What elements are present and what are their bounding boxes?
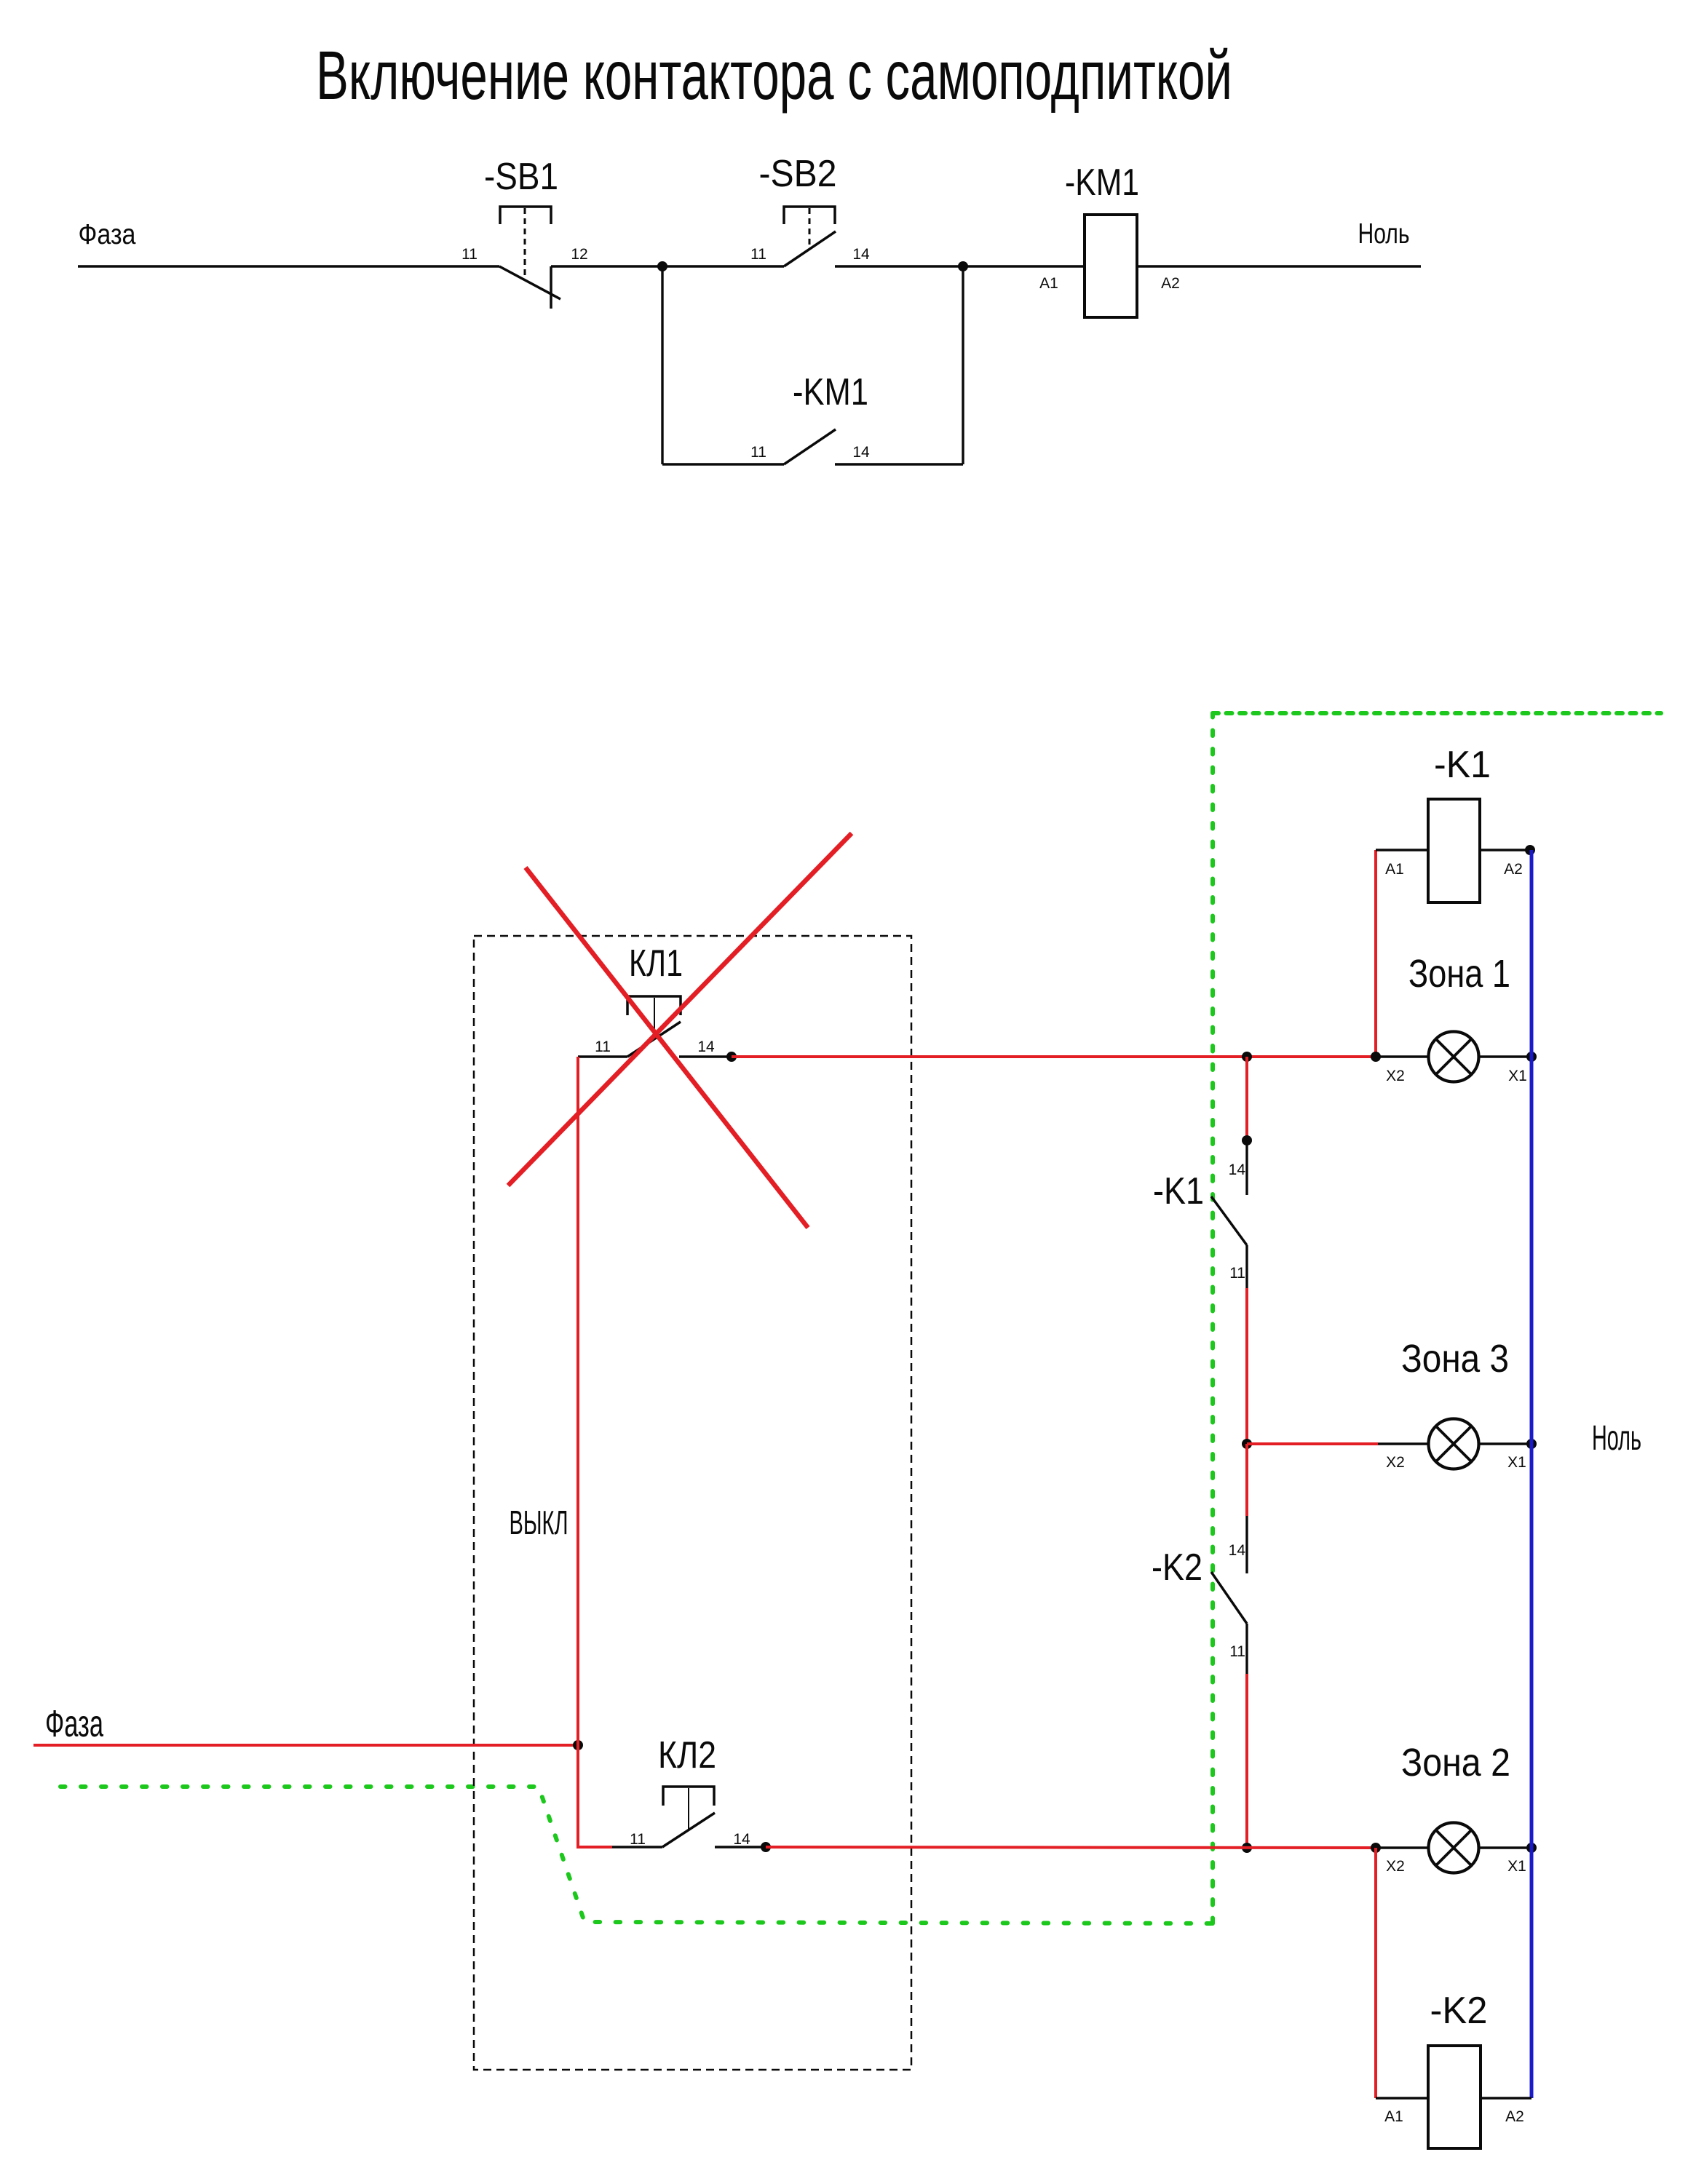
svg-text:11: 11 bbox=[461, 246, 478, 263]
contact K2 (NO, vertical) bbox=[1211, 1572, 1247, 1624]
svg-text:A1: A1 bbox=[1039, 275, 1058, 292]
svg-text:-KM1: -KM1 bbox=[1065, 162, 1139, 204]
wire node B to KM1 coil A1 bbox=[963, 265, 1085, 267]
svg-text:11: 11 bbox=[750, 246, 766, 263]
wire (red) node D down to K1 contact bbox=[1245, 1057, 1248, 1140]
node I (Фаза / ВЫКЛ riser) bbox=[573, 1740, 583, 1750]
wire KM1 aux pin 14 to riser bbox=[835, 463, 963, 465]
wire Фаза to SB1 pin 11 bbox=[78, 265, 499, 267]
wire SB2 pin 14 to node B bbox=[835, 265, 963, 267]
svg-text:Фаза: Фаза bbox=[79, 219, 136, 250]
node B (junction SB2/KM1-aux/KM1-coil) bbox=[958, 261, 968, 271]
contact K1 (NO, vertical) bbox=[1211, 1196, 1247, 1245]
svg-text:-K2: -K2 bbox=[1152, 1546, 1202, 1589]
pushbutton КЛ2 (NO) bbox=[662, 1787, 715, 1847]
wire (red) Фаза feeder bbox=[33, 1744, 578, 1747]
wire K2 contact pin 11 bbox=[1245, 1624, 1248, 1674]
lamp HL1 (Зона 1) bbox=[1429, 1032, 1479, 1082]
svg-text:Ноль: Ноль bbox=[1592, 1419, 1641, 1458]
green highlight path (right riser) bbox=[1210, 713, 1215, 1923]
svg-text:X1: X1 bbox=[1507, 1858, 1526, 1875]
node A (junction SB1/SB2/KM1-aux) bbox=[657, 261, 667, 271]
wire K2 coil A1 lead bbox=[1376, 2097, 1428, 2099]
node N (K1 coil / neutral bus top) bbox=[1525, 845, 1535, 855]
wire zone 2 lamp left lead bbox=[1376, 1846, 1428, 1849]
svg-text:12: 12 bbox=[571, 246, 587, 263]
svg-text:-K1: -K1 bbox=[1434, 744, 1491, 786]
svg-text:Зона 3: Зона 3 bbox=[1401, 1337, 1509, 1381]
svg-text:A1: A1 bbox=[1384, 2108, 1403, 2125]
svg-text:A2: A2 bbox=[1505, 2108, 1524, 2125]
pushbutton SB1 (NC) bbox=[499, 207, 560, 309]
svg-text:КЛ2: КЛ2 bbox=[658, 1734, 716, 1776]
node G (zone 3 / neutral bus) bbox=[1526, 1439, 1537, 1449]
lamp HL3 (Зона 3) bbox=[1429, 1419, 1479, 1469]
wire (red) node F down to K2 contact bbox=[1245, 1444, 1248, 1516]
wire K1 coil A1 lead bbox=[1376, 849, 1428, 851]
red cross line (up-right) bbox=[508, 833, 852, 1186]
svg-text:14: 14 bbox=[852, 246, 870, 263]
wire КЛ2 pin 14 bbox=[715, 1846, 761, 1848]
svg-text:Фаза: Фаза bbox=[45, 1703, 103, 1745]
wire (red) K2 coil riser bbox=[1374, 1848, 1377, 2098]
contact KM1 auxiliary (NO) bbox=[784, 429, 836, 464]
svg-text:11: 11 bbox=[750, 444, 766, 461]
wire zone 2 lamp right lead bbox=[1479, 1846, 1531, 1849]
svg-text:11: 11 bbox=[630, 1831, 646, 1848]
dashed enclosure box bbox=[474, 936, 911, 2070]
wire (red) ВЫКЛ riser bbox=[576, 1057, 579, 1745]
wire (red) node J to zone 2 row bbox=[766, 1847, 1376, 1848]
wire КЛ1 pin 11 bbox=[578, 1055, 627, 1057]
svg-text:Ноль: Ноль bbox=[1358, 218, 1410, 250]
red cross line (down-right) bbox=[526, 867, 808, 1228]
wire KM1 coil A2 to Ноль bbox=[1137, 265, 1421, 267]
wire node A to SB2 pin 11 bbox=[662, 265, 784, 267]
wire (red) node I down to КЛ2 bbox=[578, 1745, 612, 1847]
neutral bus (blue) bbox=[1530, 850, 1534, 2098]
pushbutton КЛ1 (NO) bbox=[627, 996, 681, 1057]
svg-text:11: 11 bbox=[1229, 1265, 1245, 1282]
svg-text:Включение контактора с самопод: Включение контактора с самоподпиткой bbox=[316, 37, 1232, 114]
svg-text:14: 14 bbox=[697, 1039, 715, 1055]
wire (red) K1 contact to node F bbox=[1245, 1288, 1248, 1444]
wire riser to node B bbox=[962, 266, 964, 464]
svg-text:14: 14 bbox=[1229, 1162, 1246, 1178]
lamp HL2 (Зона 2) bbox=[1429, 1823, 1479, 1873]
wire КЛ2 pin 11 bbox=[612, 1846, 662, 1848]
svg-text:X1: X1 bbox=[1507, 1454, 1526, 1471]
svg-text:КЛ1: КЛ1 bbox=[629, 942, 683, 985]
svg-text:A1: A1 bbox=[1385, 861, 1404, 878]
svg-text:A2: A2 bbox=[1504, 861, 1523, 878]
wire (red) K1 coil riser bbox=[1374, 850, 1377, 1057]
node O (zone 1 / neutral bus) bbox=[1526, 1052, 1537, 1062]
wire zone 3 lamp right lead bbox=[1479, 1442, 1531, 1445]
svg-text:14: 14 bbox=[852, 444, 870, 461]
wire (red) node F to zone 3 lamp bbox=[1247, 1442, 1378, 1445]
svg-text:Зона 1: Зона 1 bbox=[1408, 952, 1510, 996]
svg-text:-KM1: -KM1 bbox=[793, 371, 868, 413]
pushbutton SB2 (NO) bbox=[784, 207, 836, 266]
wire КЛ1 pin 14 bbox=[679, 1055, 732, 1057]
node L (zone 2 / neutral bus) bbox=[1526, 1843, 1537, 1853]
node M (zone 1 lamp feed) bbox=[1371, 1052, 1381, 1062]
svg-text:Зона 2: Зона 2 bbox=[1401, 1741, 1510, 1784]
svg-text:-SB2: -SB2 bbox=[759, 153, 837, 195]
wire node A down to KM1 aux branch bbox=[661, 266, 663, 464]
node J (КЛ2 output) bbox=[761, 1842, 771, 1852]
wire (red) node C to zone 1 row bbox=[732, 1055, 1376, 1058]
svg-text:X2: X2 bbox=[1386, 1454, 1405, 1471]
node C (КЛ1 output) bbox=[726, 1052, 737, 1062]
svg-text:X2: X2 bbox=[1386, 1858, 1405, 1875]
svg-text:-K2: -K2 bbox=[1430, 1990, 1488, 2032]
node F (zone 3 tee) bbox=[1242, 1439, 1252, 1449]
svg-text:X2: X2 bbox=[1386, 1068, 1405, 1084]
wire KM1 aux branch left bbox=[662, 463, 784, 465]
svg-text:X1: X1 bbox=[1508, 1068, 1527, 1084]
wire (red) K2 contact to node H bbox=[1245, 1674, 1248, 1848]
svg-text:14: 14 bbox=[1229, 1542, 1246, 1559]
svg-text:-SB1: -SB1 bbox=[484, 156, 558, 198]
svg-text:A2: A2 bbox=[1161, 275, 1180, 292]
svg-text:-K1: -K1 bbox=[1153, 1170, 1204, 1212]
wire K1 coil A2 lead bbox=[1480, 849, 1531, 851]
wire K1 contact pin 14 bbox=[1245, 1140, 1248, 1195]
node H (zone 2 row) bbox=[1242, 1843, 1252, 1853]
green highlight path (bottom-left run) bbox=[60, 1787, 1213, 1923]
svg-text:11: 11 bbox=[1229, 1643, 1245, 1660]
wire zone 3 lamp left lead bbox=[1378, 1442, 1428, 1445]
green highlight path (top run) bbox=[1213, 711, 1661, 715]
wire K2 coil A2 lead bbox=[1481, 2097, 1531, 2099]
wire K1 contact pin 11 bbox=[1245, 1245, 1248, 1288]
svg-text:11: 11 bbox=[595, 1039, 611, 1055]
coil K1 bbox=[1428, 799, 1480, 902]
coil K2 bbox=[1428, 2046, 1481, 2148]
node K (zone 2 lamp feed) bbox=[1371, 1843, 1381, 1853]
svg-text:14: 14 bbox=[733, 1831, 750, 1848]
coil KM1 bbox=[1085, 215, 1137, 317]
wire zone 1 lamp left lead bbox=[1376, 1055, 1428, 1057]
svg-text:ВЫКЛ: ВЫКЛ bbox=[510, 1504, 568, 1541]
wire K2 contact pin 14 bbox=[1245, 1516, 1248, 1573]
node D (green riser crossing) bbox=[1242, 1052, 1252, 1062]
node E (K1 contact top) bbox=[1242, 1135, 1252, 1145]
wire zone 1 lamp right lead bbox=[1479, 1055, 1531, 1057]
wire SB1 pin 12 to node A bbox=[551, 265, 662, 267]
